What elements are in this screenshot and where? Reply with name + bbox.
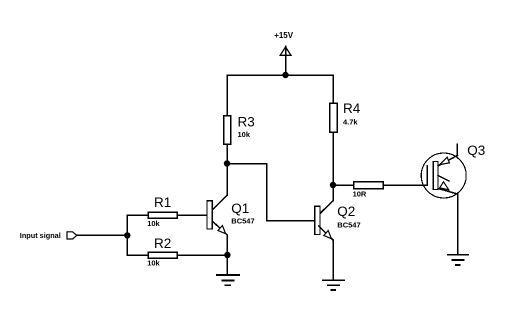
svg-text:Input signal: Input signal (20, 231, 61, 240)
power +15V supply symbol (274, 31, 294, 75)
wire rail to R4 (332, 75, 334, 103)
wire 10R to Q3 gate (384, 184, 427, 186)
wire to R2 (127, 254, 147, 256)
svg-text:BC547: BC547 (337, 220, 360, 229)
resistor 10R (353, 182, 384, 199)
wire R3 bottom to collector node (226, 145, 228, 164)
wire R4 bottom to Q2 collector (332, 133, 334, 201)
wire to R1 (127, 214, 147, 216)
wire Q2 emitter to ground (332, 240, 334, 280)
wire Q1 emitter down (226, 235, 228, 255)
wire rail to R3 (226, 75, 228, 115)
svg-text:10k: 10k (238, 130, 251, 139)
ground under Q2 (323, 280, 344, 290)
svg-text:10k: 10k (147, 259, 160, 268)
resistor R4 4.7k (330, 101, 361, 132)
transistor Q1 BC547 (207, 195, 255, 235)
node Q1 emitter junction (224, 252, 230, 258)
wire Q1 collector vertical (226, 164, 228, 196)
wire junction to 10R (333, 184, 353, 186)
wire Q1 emitter to ground (226, 255, 228, 275)
svg-text:Q3: Q3 (467, 143, 485, 158)
wire R1 to Q1 base (178, 214, 206, 216)
node input junction (124, 232, 130, 238)
wire Q3 emitter to ground (457, 194, 459, 254)
ground under Q3 (448, 255, 469, 265)
svg-text:10R: 10R (353, 190, 367, 199)
input port (20, 231, 77, 240)
wire divider left vertical (126, 215, 128, 255)
resistor R1 10k (147, 195, 177, 228)
svg-text:R4: R4 (343, 101, 361, 116)
wire junction to Q2 base (227, 164, 314, 221)
svg-text:Q1: Q1 (231, 201, 249, 216)
svg-text:4.7k: 4.7k (343, 117, 358, 126)
resistor R3 10k (224, 114, 255, 144)
transistor Q2 BC547 (315, 201, 361, 240)
svg-text:+15V: +15V (274, 31, 294, 40)
svg-text:R2: R2 (154, 236, 171, 251)
transistor Q3 (421, 143, 485, 198)
node R3/Q1 collector junction (224, 160, 230, 166)
wire top supply rail (227, 74, 333, 76)
svg-text:BC547: BC547 (231, 216, 254, 225)
node supply junction (282, 72, 288, 78)
resistor R2 10k (147, 236, 177, 268)
ground under Q1 (217, 275, 239, 285)
wire input to divider (77, 234, 128, 236)
wire R2 to Q1 emitter (178, 254, 228, 256)
svg-text:R3: R3 (238, 114, 255, 129)
svg-text:R1: R1 (154, 195, 171, 210)
node R4/10R junction (330, 182, 336, 188)
svg-text:10k: 10k (147, 219, 160, 228)
svg-text:Q2: Q2 (337, 204, 355, 219)
